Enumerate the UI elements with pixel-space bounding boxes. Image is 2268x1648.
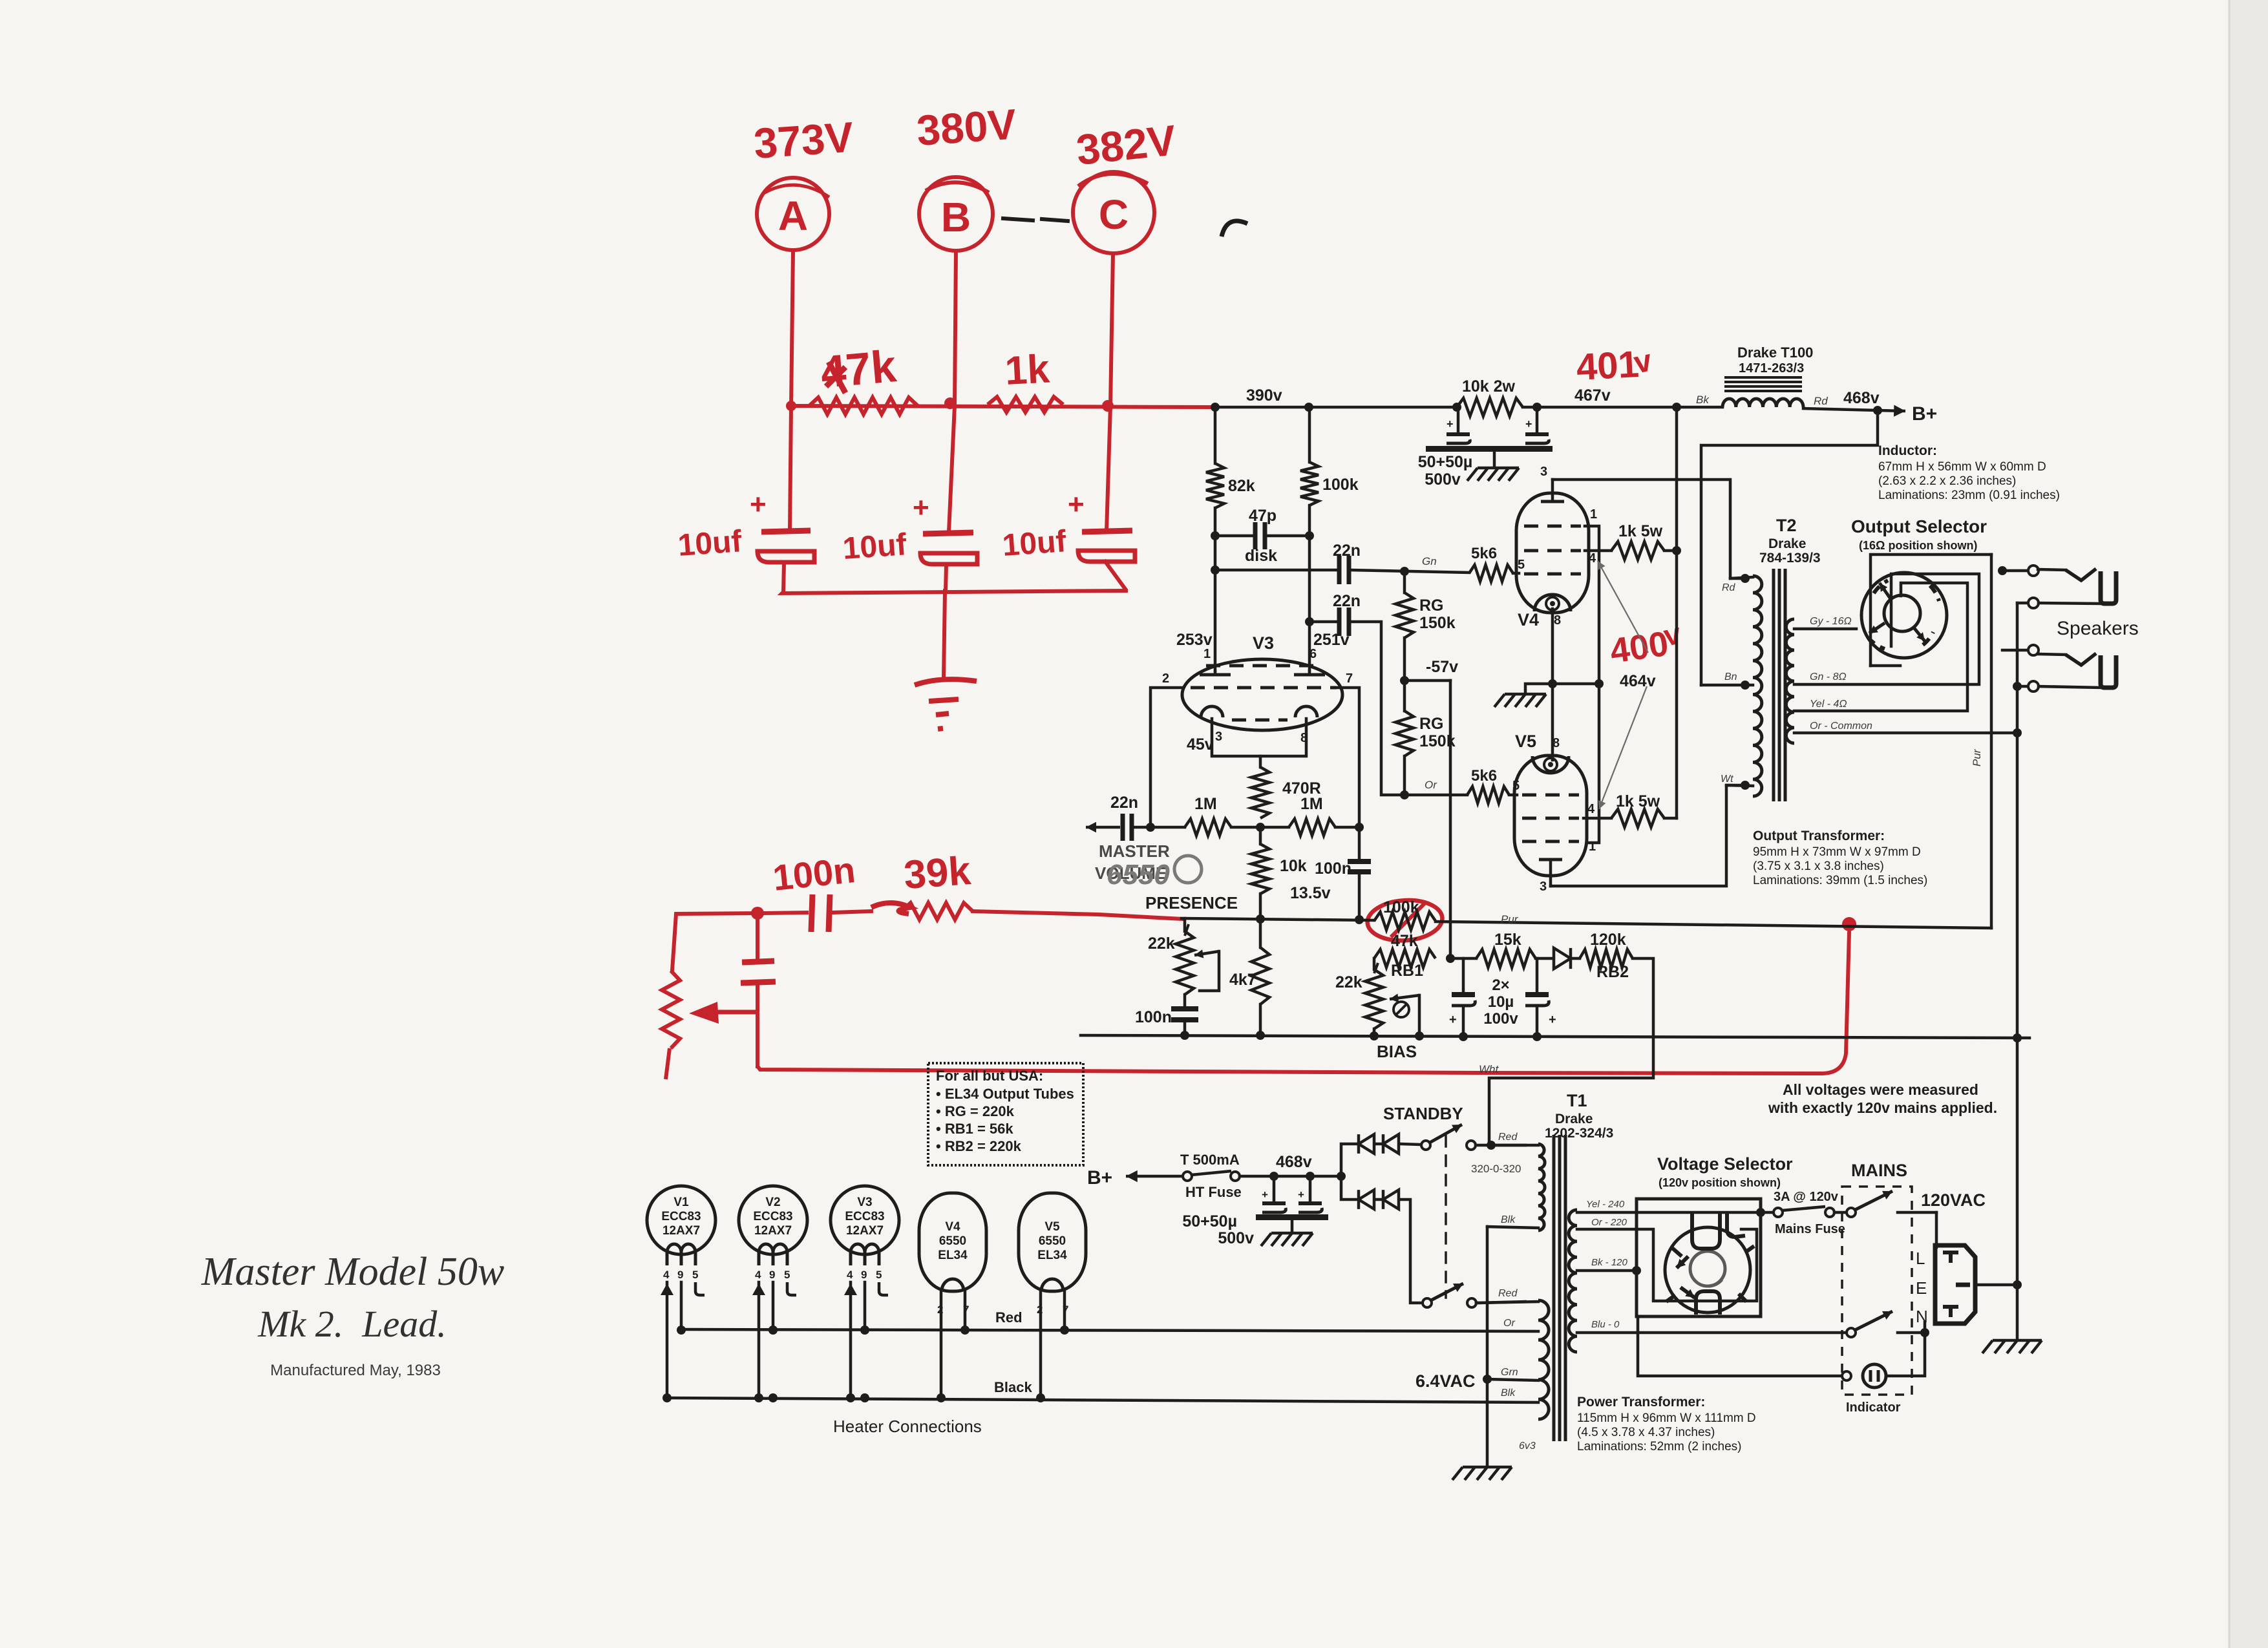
T2 tap 8 ohm [1794,574,1979,684]
svg-text:B+: B+ [1912,403,1937,425]
node screens mid [1595,679,1604,688]
label 2x 10u 100v [1483,977,1518,1028]
wire 22n lower to Or node [1351,622,1467,795]
svg-text:Bn: Bn [1724,671,1737,682]
svg-text:401: 401 [1575,343,1640,388]
T2 primary coil [1701,576,1762,796]
svg-text:45v: 45v [1187,735,1214,754]
node MV left [1146,823,1155,832]
speaker jack 2 [2039,653,2116,688]
standby mechanical link dashed [1445,1136,1447,1298]
T2 core [1774,569,1785,801]
svg-text:10uf: 10uf [842,527,908,566]
svg-text:V3: V3 [857,1196,872,1209]
T1 LT winding [667,1300,1549,1419]
wire to jack1 sleeve [2017,602,2028,605]
label output transformer spec [1753,829,1927,887]
node heater black v3 [860,1393,869,1402]
selector frame outer [1871,555,1991,666]
wire rail 10k2w to choke [1523,406,1722,409]
red circle around 100k resistor [1366,898,1444,943]
svg-text:100k: 100k [1322,476,1359,494]
svg-text:100k: 100k [1383,898,1419,916]
svg-text:• RB1 = 56k: • RB1 = 56k [936,1121,1013,1137]
red node at A on 390v rail [786,401,796,411]
red wire from C down [1110,253,1113,406]
svg-text:1k 5w: 1k 5w [1618,522,1663,540]
wire presence line left [1182,918,1374,920]
svg-text:Or - Common: Or - Common [1810,721,1872,732]
svg-text:320-0-320: 320-0-320 [1471,1163,1521,1175]
red wire 39k to presence node [973,911,1183,919]
node filter cap b [1306,1172,1315,1181]
svg-text:5k6: 5k6 [1471,767,1497,785]
node presence 100n [1355,915,1364,924]
wire choke to B+ arrow [1803,389,1880,410]
label Or lower [1503,1318,1515,1329]
svg-text:2×: 2× [1492,977,1509,994]
wire screen supply vertical [1675,407,1679,818]
svg-text:468v: 468v [1843,389,1880,407]
svg-text:Rd: Rd [1722,582,1736,593]
svg-text:+: + [1447,417,1454,430]
svg-text:E: E [1916,1278,1927,1298]
svg-text:EL34: EL34 [938,1249,968,1262]
V4 pin 1 label [1590,507,1597,522]
red wiper arrow into pot [689,1002,758,1024]
wire Yel-240 [1577,1199,1774,1217]
svg-text:+: + [1262,1188,1268,1201]
V3 grid dashed electrode [1191,686,1337,690]
capacitor 47p disk [1215,507,1309,565]
resistor 5k6 upper [1469,545,1525,582]
node fuse [0,0,1,1]
node rail left cap [1452,403,1461,412]
svg-text:Laminations: 39mm (1.5 inches): Laminations: 39mm (1.5 inches) [1753,874,1927,887]
wire to jack1 tip [2002,569,2028,573]
svg-text:Yel - 240: Yel - 240 [1586,1199,1625,1210]
potentiometer 22k presence [1148,918,1219,995]
svg-text:Manufactured May, 1983: Manufactured May, 1983 [270,1362,441,1379]
svg-text:+: + [1549,1013,1556,1027]
node T2 Bn [1724,671,1750,690]
B+ output arrow [1878,403,1937,425]
node 390v red/black junction [1211,403,1220,412]
node 470R junction [1256,823,1265,832]
node common t4 [2013,682,2022,691]
svg-text:82k: 82k [1228,477,1255,495]
red resistor 47k (handwritten) [809,341,918,414]
svg-text:+: + [1298,1188,1304,1201]
node rail screen feed [1672,403,1681,412]
label 467v [1574,386,1611,405]
label 464v [1620,672,1656,690]
label Blk left [1501,1214,1516,1225]
title Mk 2 Lead [257,1303,447,1345]
svg-text:Grn: Grn [1501,1367,1518,1378]
V3 pin7 label [1346,671,1353,686]
red node on presence wire [751,907,764,920]
resistor 470R [1251,767,1321,818]
svg-text:BIAS: BIAS [1377,1042,1417,1061]
svg-text:Mains Fuse: Mains Fuse [1775,1222,1845,1236]
svg-text:disk: disk [1245,547,1277,565]
label L E N [1916,1249,1928,1326]
svg-text:150k: 150k [1419,732,1456,750]
svg-text:4: 4 [847,1269,853,1281]
resistor 1k 5w lower [1611,792,1677,827]
voltage selector rotary [1665,1214,1754,1315]
label 253v [1176,631,1213,661]
wire V5 pin4 to 1k5w [1584,817,1611,820]
svg-text:Drake T100: Drake T100 [1737,344,1813,361]
svg-text:253v: 253v [1176,631,1213,649]
svg-text:• EL34 Output Tubes: • EL34 Output Tubes [936,1086,1074,1102]
svg-text:-57v: -57v [1426,658,1458,676]
wire V4 cathode to ground rail [1551,609,1554,760]
svg-text:1k: 1k [1004,346,1051,394]
svg-text:22k: 22k [1148,935,1175,953]
wire Bk-120 [1577,1257,1641,1275]
svg-text:22n: 22n [1333,542,1361,560]
output selector rotary switch [1861,573,1947,658]
svg-text:400: 400 [1607,624,1671,671]
svg-text:ECC83: ECC83 [753,1210,792,1223]
svg-text:T2: T2 [1776,516,1797,535]
node rectifier split [1337,1172,1346,1181]
svg-text:9: 9 [769,1269,775,1281]
svg-text:22n: 22n [1333,592,1361,610]
capacitor 50+50u 500v on rail [1418,407,1553,489]
label Rd choke [1814,395,1828,407]
svg-text:PRESENCE: PRESENCE [1145,893,1238,913]
label Bk choke [1696,394,1710,406]
svg-text:10k: 10k [1280,857,1307,875]
svg-text:MAINS: MAINS [1851,1161,1907,1180]
label Heater Connections [833,1417,982,1436]
ground main filter cap [1467,452,1519,481]
wire HT winding end to ground [1486,1227,1489,1466]
V3 cathode bracket [1212,719,1306,767]
label manufactured date [270,1362,441,1379]
svg-text:5: 5 [1518,558,1525,572]
red handwritten label 373V [752,112,855,167]
capacitor 10u #1 [1449,958,1475,1035]
svg-text:115mm H x 96mm W x 111mm D: 115mm H x 96mm W x 111mm D [1577,1411,1756,1425]
label 320-0-320 [1471,1163,1521,1175]
wire rail to 82k [1214,407,1217,463]
V5 pin 5 label [0,0,1,1]
red capacitor 100n in series [764,894,871,932]
label MAINS [1851,1161,1907,1180]
node jack bus tip2 [0,0,1,1]
svg-text:V1: V1 [673,1196,689,1209]
label PRESENCE [1145,893,1238,913]
ground reservoir cap [1261,1220,1313,1246]
red test point circle A [757,178,829,250]
node bias 22k [1180,1031,1189,1040]
svg-text:150k: 150k [1419,614,1456,632]
svg-text:For all but USA:: For all but USA: [936,1068,1043,1084]
svg-text:22k: 22k [1335,973,1362,991]
jack terminal 1 [2028,565,2039,576]
red junction dot on Pur line [1842,917,1856,931]
svg-text:with exactly 120v mains applie: with exactly 120v mains applied. [1768,1099,1997,1116]
svg-text:5: 5 [692,1269,698,1281]
B+ arrow to HT fuse [1087,1167,1183,1188]
wire Pur NFB line [1436,922,1991,928]
capacitor 100n right [1315,827,1371,919]
V3 pin3 label [1187,730,1222,754]
svg-text:Pur: Pur [1501,913,1519,925]
V3 top dashed electrode [1206,664,1320,668]
svg-text:3: 3 [1540,465,1547,479]
node heater red v2 [768,1326,778,1335]
svg-text:Gy - 16Ω: Gy - 16Ω [1810,616,1852,627]
svg-text:V4: V4 [945,1220,960,1234]
label V3 [1253,633,1274,653]
svg-text:12AX7: 12AX7 [754,1224,792,1238]
svg-text:RB1: RB1 [1391,962,1423,980]
svg-text:Or - 220: Or - 220 [1591,1217,1627,1228]
wire lower 22n line [1309,620,1338,624]
svg-text:+: + [750,489,767,520]
V4 cathode [1534,595,1571,611]
svg-text:47p: 47p [1249,507,1277,525]
svg-text:100n: 100n [1315,860,1351,878]
node 100k/22n lower [1305,617,1314,626]
svg-text:MASTER: MASTER [1099,841,1170,861]
red 390v rail segment [791,406,1215,407]
svg-text:ECC83: ECC83 [661,1210,701,1223]
label 390v [1246,386,1282,405]
node 47k right [1446,954,1455,963]
red resistor 1k (handwritten) [988,346,1063,412]
svg-text:12AX7: 12AX7 [846,1224,884,1238]
label all voltages note [1768,1081,1997,1116]
wire to jack2 tip [2002,649,2028,652]
svg-text:4: 4 [663,1269,670,1281]
svg-text:251v: 251v [1313,631,1350,649]
svg-text:5: 5 [784,1269,790,1281]
V4 pin 4 label [1589,551,1596,565]
svg-text:Blk: Blk [1501,1388,1516,1399]
svg-text:39k: 39k [902,849,973,898]
svg-text:3A @ 120v: 3A @ 120v [1774,1190,1839,1204]
red wire node to left and pot [672,913,758,971]
capacitor 22n upper [1333,542,1361,584]
wire V3 grid7 to right node [1338,688,1359,827]
wire mains neutral to IEC [1924,1322,1927,1333]
rectifier diodes upper [1341,1134,1421,1176]
svg-text:Laminations: 52mm (2 inches): Laminations: 52mm (2 inches) [1577,1440,1742,1453]
resistor 1M right [1260,795,1359,836]
mains fuse 3A [1774,1190,1845,1236]
V3 pin8 label [1300,731,1308,745]
V3 pin2 label [1162,671,1169,686]
svg-text:500v: 500v [1425,470,1461,489]
node bias RB1 wiper [1415,1031,1424,1041]
standby switch [1383,1104,1525,1150]
tube base V3 heater [831,1186,899,1402]
svg-text:(2.63 x 2.2 x 2.36 inches): (2.63 x 2.2 x 2.36 inches) [1878,474,2016,488]
node 82k/22n [1211,565,1220,575]
svg-text:1: 1 [1203,647,1211,661]
svg-text:Red: Red [1498,1288,1518,1299]
tube base V5 heater [1019,1193,1086,1402]
resistor 4k7 [1251,919,1269,1035]
svg-text:8: 8 [1553,736,1560,750]
tube base V4 heater [919,1193,986,1402]
node bias speaker common [2013,1033,2022,1042]
svg-text:V5: V5 [1515,732,1536,751]
label Grn [1501,1367,1518,1378]
svg-text:4: 4 [755,1269,761,1281]
svg-text:Yel - 4Ω: Yel - 4Ω [1810,699,1847,710]
red test point circle B [919,177,993,251]
svg-text:95mm H x 73mm W x 97mm D: 95mm H x 73mm W x 97mm D [1753,845,1921,859]
resistor RG 150k upper [1395,571,1456,681]
capacitor 22n master volume [1086,794,1150,841]
svg-text:All voltages were measured: All voltages were measured [1783,1081,1978,1098]
red handwritten label 401V [1575,343,1655,388]
wire V5 plate to T2 Wt [1551,785,1740,886]
wire fuse to rect node [1240,1175,1341,1178]
measurement arrow thin [1598,561,1648,809]
svg-text:22n: 22n [1110,794,1138,812]
svg-text:Speakers: Speakers [2057,618,2139,639]
svg-text:Power Transformer:: Power Transformer: [1577,1395,1705,1410]
label 251v [1309,631,1350,661]
red capacitor below node [741,913,776,1066]
wire rail to 100k [1308,407,1311,462]
node rail at 82k [1304,403,1313,412]
svg-text:Output Selector: Output Selector [1851,516,1987,536]
red potentiometer (handwritten) [662,971,680,1079]
red test point circle C [1073,172,1154,253]
jack terminal 2 [2028,598,2039,608]
label Or [1425,779,1437,791]
svg-text:100n: 100n [1135,1008,1172,1026]
svg-text:RG: RG [1419,597,1444,615]
svg-text:Or: Or [1503,1318,1515,1329]
note box for all but USA [928,1063,1083,1165]
red capacitor 10uF #1 [677,406,814,592]
svg-text:373V: 373V [752,112,855,167]
wire grid V5 5k6 to pin [1509,794,1517,797]
label V4 [1518,610,1561,629]
wire V4 plate to T2 Rd [1553,480,1741,578]
svg-text:47k: 47k [1391,932,1418,950]
svg-text:HT Fuse: HT Fuse [1185,1184,1242,1200]
V5 pin 4 label [1587,802,1595,816]
svg-text:2: 2 [1162,671,1169,686]
red resistor 39k in series [871,903,973,920]
red handwritten label 380V [915,100,1018,154]
red handwritten label 400V [1607,617,1684,671]
wire B+ branch down to OT centre tap [1701,410,1878,685]
svg-text:Blk: Blk [1501,1214,1516,1225]
V5 pin 1 label [1589,840,1596,854]
node common t2 [0,0,1,1]
speaker jack 1 [2038,569,2116,604]
label Blk lower [1501,1388,1516,1399]
resistor 1M left [1150,795,1260,836]
svg-text:EL34: EL34 [1037,1249,1067,1262]
svg-text:100n: 100n [771,849,858,898]
node 100k/47p [1305,531,1314,540]
resistor 5k6 lower [1467,767,1520,803]
node presence 10k [1256,914,1265,924]
label Red top [1498,1132,1518,1143]
node heater red v3 [860,1326,869,1335]
jack terminal 3 [2028,645,2039,655]
svg-text:Black: Black [994,1379,1032,1395]
node cathode junction [1548,679,1557,688]
voltage selector frame [1637,1199,1761,1316]
label T2 [1759,516,1821,565]
tube base V1 heater [647,1186,715,1402]
svg-text:RG: RG [1419,715,1444,733]
potentiometer RB1 22k [1335,962,1423,1035]
node right 1M [1355,823,1364,832]
wire RB2 to Wht to T1 [1489,958,1653,1144]
svg-text:V4: V4 [1518,610,1539,629]
svg-text:Red: Red [1498,1132,1518,1143]
T1 primary winding [1569,1210,1577,1352]
svg-text:• RB2 = 220k: • RB2 = 220k [936,1138,1022,1154]
V5 plate pin 3 [1539,860,1562,894]
label 6v3 [1519,1441,1536,1452]
node filter cap a [1269,1172,1278,1181]
label 120VAC [1921,1190,1986,1210]
ground T1 [1452,1467,1512,1480]
svg-text:A: A [778,193,808,239]
resistor 15k [1450,931,1551,967]
svg-text:Rd: Rd [1814,395,1828,407]
tube V3 envelope [1182,659,1342,730]
node T2 Rd [1722,574,1750,593]
inductor Drake T100 choke [1722,344,1813,407]
red handwritten label 100n [771,849,858,898]
label Pur [1501,913,1519,925]
svg-text:C: C [1099,191,1129,238]
V3 plate pin 6 [1294,671,1325,675]
node common to speaker bus [2013,728,2022,737]
svg-text:10uf: 10uf [1001,524,1068,563]
red wire from A down [791,250,793,406]
V3 plate pin 1 [1200,671,1231,675]
svg-text:+: + [1525,417,1532,430]
wire IEC earth [1975,1280,2022,1289]
tube base V2 heater [739,1186,807,1402]
ground V4 V5 cathodes [1494,684,1553,707]
svg-text:L: L [1916,1249,1925,1268]
svg-text:V5: V5 [1044,1220,1060,1234]
svg-text:Pur: Pur [1971,748,1983,766]
wire to jack2 sleeve [2017,685,2028,688]
wire -57v rail [1404,679,1450,682]
label inductor spec [1878,443,2060,502]
svg-text:(120v position shown): (120v position shown) [1659,1176,1781,1189]
svg-text:Drake: Drake [1555,1112,1593,1126]
T2 tap common [1794,721,2017,733]
svg-text:• RG = 220k: • RG = 220k [936,1103,1015,1119]
svg-text:Voltage Selector: Voltage Selector [1657,1154,1793,1174]
label T1 [1545,1091,1613,1141]
node bias 4k7 [1256,1031,1265,1040]
indicator lamp [1638,1316,1929,1415]
